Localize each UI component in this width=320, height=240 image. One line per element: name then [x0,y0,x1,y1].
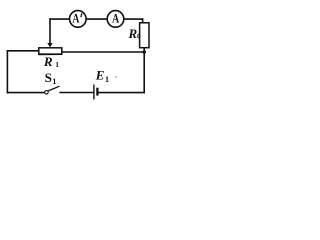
switch lever [48,86,59,91]
svg-text:R: R [128,26,138,41]
ammeter A [107,11,124,28]
wire right vertical below R0 [143,48,145,93]
wire bottom between battery and switch [60,92,93,94]
svg-text:E: E [95,67,105,82]
junction node [142,50,146,54]
svg-text:1: 1 [55,60,59,69]
battery long plate [93,85,95,100]
wire from R1 right terminal to junction [62,51,144,53]
rheostat R1 [39,48,62,54]
svg-text:A: A [72,12,80,26]
svg-text:R: R [43,54,53,69]
wire bottom right segment [98,92,144,94]
battery E1 [94,85,98,100]
switch S1 [45,86,60,94]
switch pivot circle [45,91,49,95]
wire wiper vertical from top wire [49,19,51,43]
faint speck [115,76,117,78]
svg-text:0: 0 [137,32,141,41]
wire left vertical [6,51,8,93]
ammeter A' [70,11,87,28]
wire top horizontal [50,18,143,20]
rheostat R1 bottom edge [38,53,62,55]
wiper arrowhead [47,43,52,47]
label A [112,12,120,26]
prime mark [81,13,82,17]
resistor R0 [140,23,149,48]
battery short plate [96,88,98,96]
svg-text:A: A [112,12,120,26]
svg-text:1: 1 [105,75,109,84]
svg-text:1: 1 [52,77,56,86]
label A' [72,12,80,26]
wire top-right vertical into R0 [142,19,144,24]
wire bottom left segment [7,92,43,94]
svg-text:S: S [45,70,52,85]
wire to R1 left terminal [7,50,38,52]
